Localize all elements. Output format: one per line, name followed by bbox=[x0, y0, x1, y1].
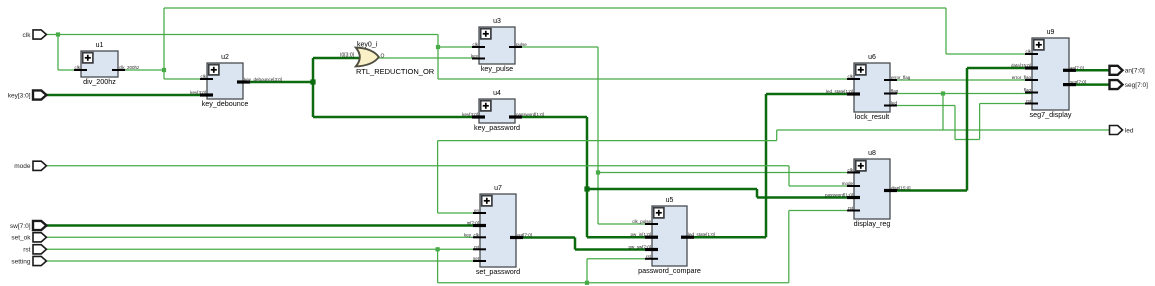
wire clk_200hz drop x946 bbox=[945, 8, 947, 54]
junction rst branch bbox=[436, 247, 440, 251]
svg-text:an[7:0]: an[7:0] bbox=[1125, 68, 1145, 75]
svg-text:setting: setting bbox=[11, 258, 31, 265]
wire rst riser to u5 bbox=[586, 259, 588, 283]
svg-text:pw_sw[7:0]: pw_sw[7:0] bbox=[628, 245, 651, 250]
wire led riser x979.6 bbox=[979, 104, 981, 140]
svg-text:key[3:0]: key[3:0] bbox=[190, 90, 206, 95]
svg-text:key_clk: key_clk bbox=[464, 232, 480, 237]
wire out7 from u7 bbox=[515, 236, 575, 239]
svg-text:rst: rst bbox=[848, 206, 854, 211]
svg-text:u8: u8 bbox=[868, 150, 876, 157]
svg-text:seg[7:0]: seg[7:0] bbox=[1125, 82, 1148, 89]
svg-text:div_200hz: div_200hz bbox=[83, 77, 116, 86]
wire clk vertical x438 bbox=[437, 35, 439, 80]
wire rst bottom line bbox=[438, 282, 789, 284]
svg-text:key: key bbox=[471, 54, 479, 59]
wire clk_200hz riser x164 bbox=[163, 8, 165, 79]
module u1 div_200hz bbox=[74, 42, 140, 86]
wire sw bus to u7.in bbox=[46, 224, 482, 227]
wire led to u9.rst bbox=[980, 103, 1033, 105]
svg-text:u7: u7 bbox=[494, 185, 502, 192]
wire disp from u8 bbox=[889, 189, 967, 192]
module u6 lock_result bbox=[826, 54, 911, 121]
svg-text:set_password: set_password bbox=[476, 267, 520, 276]
svg-text:key_password: key_password bbox=[474, 123, 520, 132]
svg-text:mode: mode bbox=[14, 163, 31, 170]
wire mode to u8.mode bbox=[789, 185, 855, 187]
module u3 key_pulse bbox=[471, 18, 527, 73]
wire password to step bbox=[587, 188, 757, 191]
wire pulse drop x598 bbox=[597, 47, 599, 224]
wire led_state to u6 bbox=[766, 93, 855, 96]
wire set_ok to u7.key_clk bbox=[46, 236, 482, 238]
input port setting bbox=[11, 256, 46, 265]
svg-text:I0[3:0]: I0[3:0] bbox=[340, 53, 355, 59]
output port led bbox=[1110, 126, 1134, 135]
svg-text:password[1:0]: password[1:0] bbox=[516, 112, 544, 117]
svg-text:led: led bbox=[1125, 127, 1134, 134]
module u2 key_debounce bbox=[190, 54, 282, 108]
svg-text:pw_in[1:0]: pw_in[1:0] bbox=[630, 232, 651, 237]
svg-text:led: led bbox=[891, 101, 898, 106]
wire clk to u6.clk bbox=[438, 78, 855, 80]
wire rst drop x437.6 bbox=[437, 249, 439, 282]
svg-text:u2: u2 bbox=[221, 54, 229, 61]
svg-text:seg[7:0]: seg[7:0] bbox=[1070, 80, 1086, 85]
wire password to u5.pw_in bbox=[587, 236, 653, 239]
svg-text:RTL_REDUCTION_OR: RTL_REDUCTION_OR bbox=[356, 67, 435, 76]
module u7 set_password bbox=[464, 185, 532, 276]
wire flag to u7.en bbox=[438, 212, 481, 214]
wire flag u6 to u9 bbox=[889, 93, 1033, 95]
svg-text:clk: clk bbox=[848, 74, 854, 79]
wire key bus port to u2 bbox=[46, 94, 209, 97]
wire mode drop x789 bbox=[788, 166, 790, 186]
svg-text:u4: u4 bbox=[493, 90, 501, 97]
wire clk_200hz top line bbox=[164, 7, 946, 9]
junction key_debounce junction bbox=[310, 79, 315, 84]
svg-text:rst: rst bbox=[1026, 99, 1032, 104]
wire data to u9.data bbox=[967, 67, 1033, 70]
svg-text:en: en bbox=[474, 208, 480, 213]
svg-text:disp[15:0]: disp[15:0] bbox=[891, 186, 911, 191]
wire led_state from u5 bbox=[686, 236, 766, 239]
svg-text:u5: u5 bbox=[666, 197, 674, 204]
svg-text:an[7:0]: an[7:0] bbox=[1070, 65, 1084, 70]
svg-text:error_flag: error_flag bbox=[891, 75, 911, 80]
svg-text:O: O bbox=[381, 54, 385, 60]
wire led from u6 bbox=[889, 105, 955, 107]
svg-text:u9: u9 bbox=[1047, 29, 1055, 36]
svg-text:lock_result: lock_result bbox=[855, 112, 889, 121]
wire pulse from u3 bbox=[514, 46, 598, 48]
svg-text:key_debounce[3:0]: key_debounce[3:0] bbox=[244, 77, 282, 82]
module u9 seg7_display bbox=[1011, 29, 1086, 119]
svg-text:led_state[1:0]: led_state[1:0] bbox=[826, 89, 853, 94]
svg-text:clk: clk bbox=[473, 42, 479, 47]
wire clk_200hz to u2.clk bbox=[164, 78, 208, 80]
wire flag long to x437.6 bbox=[438, 140, 777, 142]
junction clk_200hz junction bbox=[162, 68, 166, 72]
svg-text:rst: rst bbox=[474, 244, 480, 249]
wire rst to u5.rst bbox=[587, 258, 653, 260]
wire flag drop x943 bbox=[942, 94, 944, 131]
junction clk at u3 branch bbox=[436, 45, 440, 49]
svg-text:data[15:0]: data[15:0] bbox=[1011, 63, 1031, 68]
svg-text:clk: clk bbox=[75, 65, 81, 70]
wire flag drop to u7.en bbox=[437, 141, 439, 213]
wire key_debounce to u4.key bbox=[313, 116, 480, 119]
svg-text:flag: flag bbox=[1024, 88, 1032, 93]
output port seg[7:0] bbox=[1110, 80, 1149, 89]
svg-text:key_debounce: key_debounce bbox=[202, 99, 249, 108]
junction pulse branch bbox=[596, 170, 600, 174]
wire password drop x587 bbox=[586, 117, 589, 237]
wire clk to u1.clk bbox=[58, 69, 82, 71]
svg-text:u6: u6 bbox=[868, 54, 876, 61]
wire key_debounce riser x313 bbox=[312, 58, 315, 117]
svg-text:seg7_display: seg7_display bbox=[1030, 110, 1072, 119]
svg-text:mode: mode bbox=[842, 181, 854, 186]
module u8 display_reg bbox=[825, 150, 911, 228]
module u5 password_compare bbox=[628, 197, 715, 275]
wire mode main bbox=[46, 165, 790, 167]
wire clk_200hz from u1 bbox=[117, 69, 164, 71]
svg-text:error_flag: error_flag bbox=[1012, 75, 1032, 80]
junction password branch bbox=[584, 186, 589, 191]
input port rst bbox=[23, 245, 46, 254]
or-gate RTL_REDUCTION_OR (key0_i) bbox=[340, 42, 435, 77]
wire seg bus u9 to port bbox=[1068, 83, 1109, 86]
svg-text:sw[7:0]: sw[7:0] bbox=[10, 223, 31, 230]
module u4 key_password bbox=[462, 90, 544, 132]
svg-text:key_pulse: key_pulse bbox=[481, 64, 513, 73]
svg-text:clk_200hz: clk_200hz bbox=[119, 65, 140, 70]
svg-text:led_state[1:0]: led_state[1:0] bbox=[688, 232, 715, 237]
input port mode bbox=[14, 161, 46, 170]
svg-text:u3: u3 bbox=[493, 18, 501, 25]
wire disp riser x967 bbox=[966, 68, 969, 191]
svg-text:key[3:0]: key[3:0] bbox=[8, 92, 31, 99]
wire key0_i OR out to u3.key bbox=[378, 57, 480, 59]
svg-text:out[7:0]: out[7:0] bbox=[517, 233, 532, 238]
svg-text:flag: flag bbox=[891, 89, 899, 94]
wire rst riser to u8 bbox=[788, 211, 790, 283]
wire clk_200hz to u9.clk bbox=[946, 53, 1033, 55]
output port an[7:0] bbox=[1110, 66, 1145, 75]
junction flag branch bbox=[941, 91, 945, 95]
wire led_state riser x766 bbox=[765, 94, 768, 237]
input port key[3:0] bbox=[8, 90, 47, 99]
wire key_debounce from u2 bbox=[242, 81, 313, 84]
svg-text:rst: rst bbox=[23, 247, 30, 254]
input port clk bbox=[23, 30, 47, 39]
wire clk main bbox=[46, 34, 439, 36]
svg-text:clk: clk bbox=[848, 168, 854, 173]
wire password to u8.password bbox=[757, 196, 855, 199]
wire flag to led port bbox=[777, 129, 1109, 131]
junction rst u5 branch bbox=[585, 281, 589, 285]
wire led drop x955 bbox=[954, 106, 956, 140]
wire clk to u3.clk bbox=[438, 46, 480, 48]
svg-text:rst: rst bbox=[646, 254, 652, 259]
wire key_debounce to OR gate bbox=[313, 57, 363, 60]
wire pulse to u5.clk_pulse bbox=[598, 223, 653, 225]
input port set_ok bbox=[11, 233, 46, 242]
wire error_flag u6 to u9 bbox=[889, 79, 1033, 81]
input port sw[7:0] bbox=[10, 221, 46, 230]
svg-text:set: set bbox=[473, 256, 480, 261]
wire out7 drop x575 bbox=[574, 238, 577, 250]
wire pulse to u8.clk bbox=[598, 172, 855, 174]
junction clk at u1 branch bbox=[56, 32, 60, 36]
wire password step down bbox=[756, 189, 759, 198]
svg-text:password_compare: password_compare bbox=[638, 266, 701, 275]
wire password from u4 bbox=[514, 116, 587, 119]
svg-text:in[7:0]: in[7:0] bbox=[467, 221, 479, 226]
wire clk drop to u1 bbox=[57, 35, 59, 71]
svg-text:clk: clk bbox=[1026, 49, 1032, 54]
svg-text:set_ok: set_ok bbox=[11, 235, 31, 242]
svg-text:password[1:0]: password[1:0] bbox=[825, 193, 853, 198]
wire rst main bbox=[46, 248, 482, 250]
svg-text:clk_pulse: clk_pulse bbox=[632, 219, 651, 224]
svg-text:clk: clk bbox=[23, 32, 32, 39]
svg-text:key[3:0]: key[3:0] bbox=[462, 112, 478, 117]
svg-text:u1: u1 bbox=[96, 42, 104, 49]
wire an bus u9 to port bbox=[1068, 69, 1109, 72]
wire out7 to u5.pw_sw bbox=[575, 248, 653, 251]
wire flag step x776.7 bbox=[776, 130, 778, 141]
wire setting to u7.set bbox=[46, 260, 482, 262]
wire led jog bbox=[955, 139, 980, 141]
svg-text:clk: clk bbox=[201, 74, 207, 79]
wire rst to u8.rst bbox=[789, 210, 855, 212]
svg-text:display_reg: display_reg bbox=[854, 219, 891, 228]
svg-text:pulse: pulse bbox=[516, 42, 527, 47]
